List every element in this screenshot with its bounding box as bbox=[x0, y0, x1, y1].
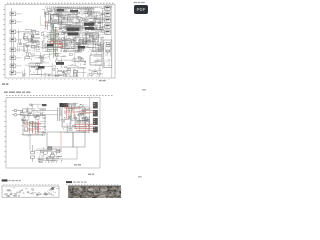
pink feedback trace bbox=[60, 132, 62, 146]
switching cluster red traces bbox=[64, 105, 81, 118]
line filter L601 bbox=[28, 109, 32, 112]
IC U102 bbox=[68, 33, 79, 36]
photo block speckle bbox=[68, 186, 121, 200]
sheet 2 caption bbox=[74, 164, 81, 165]
IC U304 bbox=[78, 46, 85, 49]
sheet1 texture center-mid bbox=[41, 30, 104, 52]
IC U202 bbox=[85, 27, 95, 30]
sheet1 texture lower bbox=[22, 52, 86, 77]
red output group bbox=[74, 124, 93, 131]
IC U305 bbox=[56, 62, 64, 65]
sheet 2 inner vertical border bbox=[89, 98, 91, 132]
wire AC lines to transformer bbox=[32, 111, 58, 115]
photo block base bbox=[68, 186, 121, 199]
photocoupler PC601 bbox=[43, 148, 59, 158]
sheet2 texture switching bbox=[61, 103, 91, 133]
sheet2 texture primary bbox=[20, 104, 46, 136]
section 2 title text bbox=[4, 92, 30, 93]
notes label bbox=[2, 179, 8, 181]
sub-circuit box jungle bbox=[62, 40, 75, 49]
photo block top edge bbox=[68, 186, 121, 187]
sheet1 texture extra fine bbox=[40, 9, 104, 52]
sheet1 texture center-top bbox=[44, 7, 104, 30]
page header text bbox=[134, 2, 145, 3]
sheet1 texture lower-right bbox=[88, 53, 103, 77]
transformer core lines bbox=[58, 108, 60, 122]
photo block ticks bbox=[66, 183, 118, 186]
feedback box outline B bbox=[73, 132, 85, 147]
AC plug P601 bbox=[12, 109, 22, 116]
sheet 1 top ruler ticks bbox=[7, 2, 114, 5]
right margin page num bbox=[142, 89, 146, 90]
IC U301 bbox=[57, 9, 64, 12]
bridge rectifier block outline bbox=[23, 116, 45, 136]
sheet 2 frame bbox=[6, 98, 100, 169]
standby resistors R615 R616 bbox=[31, 145, 35, 162]
IC U201 bbox=[84, 23, 95, 26]
right margin note bbox=[138, 176, 142, 177]
bus wire left vertical bbox=[12, 8, 14, 76]
left block column ticks bbox=[3, 183, 58, 186]
secondary red bus pair bbox=[81, 111, 93, 113]
left block dark blob bbox=[51, 187, 54, 190]
fuse F601 bbox=[23, 109, 27, 112]
photo label sub bbox=[73, 182, 86, 183]
feedback box outline A bbox=[47, 132, 73, 147]
output connector stack CN601-CN603 bbox=[93, 102, 98, 133]
error amp wiring bbox=[30, 135, 77, 162]
photo label bbox=[66, 181, 72, 183]
highlighted net B+ vertical pair bbox=[54, 25, 56, 58]
notes sub text bbox=[9, 180, 21, 181]
connector stack CN101-CN105 bbox=[101, 6, 111, 34]
highlighted resistor R415 bbox=[58, 45, 63, 48]
sub-circuit box tuner bbox=[51, 15, 59, 24]
sheet 1 bottom ruler ticks bbox=[8, 78, 109, 81]
sheet 1 caption bbox=[2, 83, 8, 84]
IC U101 bbox=[67, 28, 80, 31]
PDF chip top-right bbox=[134, 5, 148, 14]
highlighted net B+ horizontals bbox=[46, 21, 64, 44]
left block bottom doodles bbox=[6, 192, 53, 197]
left block frame bbox=[2, 186, 59, 197]
left block sketch marks bbox=[5, 187, 60, 196]
sub-circuit box if bbox=[24, 33, 33, 40]
IC U306 bbox=[38, 66, 45, 69]
regulator box outline bbox=[62, 107, 85, 127]
highlighted primary rails bbox=[28, 121, 42, 134]
sheet 2 top ruler ticks bbox=[6, 94, 113, 97]
sheet 1 page note bbox=[99, 80, 106, 81]
sheet 2 bottom caption bbox=[88, 174, 94, 175]
CRT socket block bbox=[104, 40, 112, 68]
sub-circuit box chroma bbox=[86, 33, 98, 42]
sheet 1 left ruler ticks bbox=[3, 9, 6, 75]
CRT socket pins bbox=[105, 41, 112, 66]
sheet1 texture left-mid bbox=[18, 29, 40, 52]
sheet 2 left ruler ticks bbox=[4, 101, 7, 162]
IC U302 bbox=[70, 10, 78, 12]
schematic sheet 1 frame bbox=[5, 5, 115, 79]
sheet1 top bus dashes bbox=[45, 6, 112, 9]
sheet2 texture lower cluster bbox=[36, 147, 62, 163]
sub-circuit box audio bbox=[90, 55, 102, 65]
IC U303 bbox=[47, 44, 54, 47]
transformer label T601 bbox=[60, 103, 69, 107]
photo block clumps bbox=[72, 186, 119, 198]
relay label RY601 bbox=[42, 104, 47, 106]
connector column J101-J108 bbox=[10, 12, 22, 75]
sheet 1 inner right border bbox=[111, 5, 113, 79]
primary caps C605 C606 bbox=[25, 120, 28, 132]
